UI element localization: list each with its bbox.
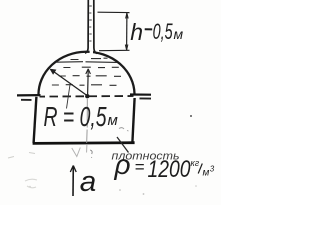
faint pencil smudge bottom-left: [25, 179, 37, 188]
h dimension top tick: [98, 11, 130, 13]
svg-text:0,5: 0,5: [153, 19, 173, 44]
density leader line: [117, 137, 129, 153]
vessel right wall: [132, 98, 134, 143]
acceleration arrow a: [70, 166, 76, 197]
base dashed line: [40, 95, 134, 98]
left flange: [17, 94, 41, 97]
h dimension vertical line: [125, 13, 128, 50]
stray curl mark: [90, 150, 92, 158]
faint arrowhead on centerline: [72, 148, 81, 157]
svg-text:м: м: [174, 26, 184, 42]
white-out tube interior over arc: [90, 0, 93, 54]
tiny specks: [190, 115, 192, 117]
left flange lower dash: [21, 99, 32, 101]
vessel left wall: [34, 97, 37, 143]
vertical arrow in water: [86, 69, 91, 95]
svg-text:1200: 1200: [148, 156, 192, 183]
faint marks left of arrow: [8, 153, 35, 159]
svg-text:h: h: [130, 19, 143, 45]
svg-text:=: =: [135, 158, 145, 177]
svg-text:R = 0,5: R = 0,5: [44, 101, 107, 132]
svg-text:ρ: ρ: [114, 149, 131, 180]
centerline below center (faint pencil): [86, 99, 89, 143]
radius arrow R: [50, 69, 87, 96]
dome arc: [38, 52, 134, 96]
right flange: [130, 93, 151, 95]
R label leader line: [67, 85, 71, 109]
water hatch dashes: [52, 58, 121, 85]
tube water marks: [89, 6, 92, 41]
water surface line: [56, 61, 117, 64]
center dot: [85, 94, 89, 98]
svg-text:м: м: [203, 168, 210, 179]
svg-text:a: a: [80, 166, 97, 198]
h dimension bottom tick: [99, 49, 130, 51]
tube left wall: [85, 0, 88, 53]
svg-text:3: 3: [210, 165, 215, 174]
vessel bottom: [33, 141, 135, 144]
svg-text:м: м: [108, 112, 118, 129]
faint mark near R label: [119, 128, 129, 131]
svg-text:кг: кг: [191, 158, 200, 168]
right flange lower line: [140, 97, 152, 99]
tube right wall: [94, 0, 97, 53]
